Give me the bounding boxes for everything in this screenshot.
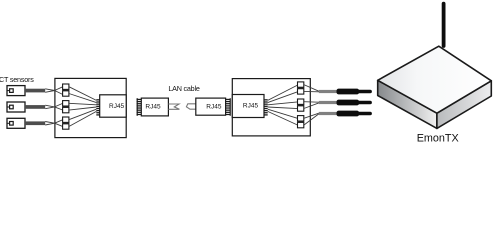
EmonTX enclosure bbox=[378, 46, 492, 128]
jack plug body 1 bbox=[337, 89, 360, 95]
wire TB1-b to J1 pin2 bbox=[69, 94, 97, 103]
wire J2 pin2 to TB4-b bbox=[268, 92, 298, 103]
wire TB4-a to plug cable 1 bbox=[304, 85, 319, 92]
jack plug body 3 bbox=[337, 111, 360, 117]
svg-text:CT sensors: CT sensors bbox=[0, 75, 34, 84]
terminal block TB2 bbox=[62, 101, 69, 113]
wire TB5-a to plug cable 2 bbox=[304, 101, 319, 104]
jack J2 pins bbox=[264, 99, 267, 115]
wire J2 pin3 to TB5-a bbox=[268, 102, 298, 105]
CT sensor CT2 bbox=[7, 102, 25, 112]
CT1 wire pair to TB1 bbox=[55, 87, 63, 95]
LAN cable stub right bbox=[186, 104, 196, 109]
wire J2 pin6 to TB6-b bbox=[268, 111, 298, 125]
RJ45 jack J1 bbox=[100, 95, 127, 117]
svg-text:LAN cable: LAN cable bbox=[168, 84, 200, 93]
jack J1 pins bbox=[96, 99, 99, 115]
wire TB6-a to plug cable 3 bbox=[304, 113, 319, 118]
jack plug cable 1 bbox=[319, 90, 337, 93]
CT3 wire pair to TB3 bbox=[55, 120, 63, 127]
wire J2 pin4 to TB5-b bbox=[268, 107, 298, 109]
svg-text:RJ45: RJ45 bbox=[145, 103, 161, 110]
terminal block TB1 bbox=[62, 84, 69, 96]
breakout box 1 bbox=[55, 78, 126, 137]
antenna bbox=[442, 4, 446, 46]
CT2 cable bbox=[25, 105, 45, 109]
jack plug tip 2 bbox=[357, 101, 372, 105]
CT1 cable bbox=[25, 89, 45, 93]
wire TB6-b to plug cable 3 bbox=[304, 114, 319, 125]
CT1 cable strands taper bbox=[45, 89, 54, 93]
jack plug tip 3 bbox=[357, 112, 372, 116]
wire TB4-b to plug cable 1 bbox=[304, 90, 319, 92]
terminal block TB5 bbox=[297, 99, 304, 111]
CT3 cable strands taper bbox=[45, 122, 54, 126]
wire TB1-a to J1 pin1 bbox=[69, 87, 97, 101]
CT sensor CT1 bbox=[7, 86, 25, 96]
jack plug cable 2 bbox=[319, 101, 337, 104]
wire TB3-b to J1 pin6 bbox=[69, 111, 97, 126]
wire J2 pin1 to TB4-a bbox=[268, 85, 298, 100]
terminal block TB4 bbox=[297, 82, 304, 94]
CT3 cable bbox=[25, 121, 45, 125]
plug P1 contacts bbox=[137, 98, 142, 116]
wire J2 pin5 to TB6-a bbox=[268, 109, 298, 118]
RJ45 plug P1 bbox=[141, 98, 168, 116]
jack plug cable 3 bbox=[319, 112, 337, 115]
CT2 cable strands taper bbox=[45, 105, 54, 109]
plug P2 contacts bbox=[226, 98, 231, 116]
jack plug body 2 bbox=[337, 100, 360, 106]
wire TB2-b to J1 pin4 bbox=[69, 107, 97, 110]
terminal block TB6 bbox=[297, 116, 304, 128]
LAN cable stub left bbox=[168, 104, 179, 109]
CT2 wire pair to TB2 bbox=[55, 103, 63, 110]
svg-text:RJ45: RJ45 bbox=[206, 103, 222, 110]
RJ45 plug P2 bbox=[196, 98, 226, 115]
wire TB2-a to J1 pin3 bbox=[69, 103, 97, 105]
terminal block TB3 bbox=[62, 117, 69, 129]
svg-text:EmonTX: EmonTX bbox=[417, 133, 459, 145]
CT sensor CT3 bbox=[7, 118, 25, 128]
breakout box 2 bbox=[232, 79, 310, 136]
wire TB5-b to plug cable 2 bbox=[304, 103, 319, 109]
jack plug tip 1 bbox=[357, 90, 372, 94]
svg-text:RJ45: RJ45 bbox=[243, 103, 259, 110]
svg-text:RJ45: RJ45 bbox=[109, 103, 125, 110]
wire TB3-a to J1 pin5 bbox=[69, 109, 97, 120]
RJ45 jack J2 bbox=[232, 95, 264, 118]
